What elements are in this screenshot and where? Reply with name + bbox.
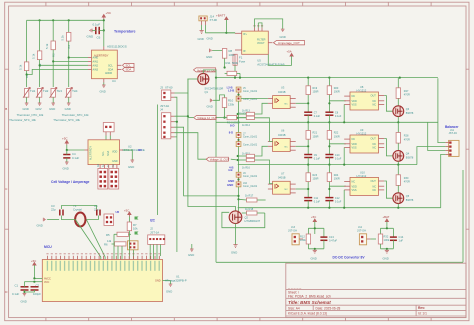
resistor R23 — [306, 165, 319, 198]
capacitor C5 — [94, 204, 100, 216]
wire opto output — [296, 188, 309, 190]
svg-text:+5C: +5C — [311, 215, 316, 219]
connector J7 — [128, 241, 139, 250]
svg-text:GND: GND — [311, 257, 317, 261]
svg-text:GND: GND — [280, 35, 286, 39]
capacitor C13 — [320, 235, 337, 249]
IC U4 ADS1115 temperature ADC — [88, 44, 127, 83]
svg-text:0.1uF: 0.1uF — [72, 156, 79, 160]
power +5A — [287, 50, 294, 66]
wires R5 R6 J7 to MCU — [113, 234, 115, 259]
svg-text:JST-GH: JST-GH — [357, 230, 366, 233]
svg-text:C14: C14 — [399, 235, 404, 239]
svg-text:8-D: 8-D — [230, 123, 235, 127]
wire OUT to gate — [384, 139, 393, 156]
svg-text:ADDR: ADDR — [105, 72, 112, 75]
svg-text:SDA: SDA — [108, 68, 113, 71]
svg-text:Id: 1/1: Id: 1/1 — [418, 312, 427, 316]
connector block J5 bottom left — [98, 169, 108, 190]
svg-text:Conn_01x01: Conn_01x01 — [243, 175, 258, 178]
svg-text:+BAT: +BAT — [383, 215, 390, 219]
svg-text:Conn_01x01: Conn_01x01 — [243, 90, 258, 93]
svg-text:R20: R20 — [334, 87, 339, 90]
wires J2 to MCU — [149, 244, 151, 259]
wire pin4 to rail3 — [441, 154, 446, 207]
capacitor C9 — [304, 154, 320, 166]
wire crystal to mcu xtal pins — [61, 216, 75, 220]
svg-text:GND: GND — [21, 300, 27, 304]
ground under J14 — [198, 25, 204, 41]
crystal Y1 — [73, 204, 86, 227]
svg-text:4-B: 4-B — [228, 168, 233, 172]
svg-text:Thermistor_NTC_10k: Thermistor_NTC_10k — [62, 113, 89, 117]
wire crystal top bus — [61, 206, 96, 209]
svg-text:0.1uF: 0.1uF — [314, 115, 321, 118]
svg-text:Voltage 12_OUT: Voltage 12_OUT — [197, 116, 217, 120]
svg-text:XT-60: XT-60 — [165, 86, 173, 90]
transistor Q5 — [393, 185, 414, 208]
Q2 source to ground — [235, 224, 237, 245]
svg-text:R23: R23 — [313, 174, 318, 177]
transistor Q3 — [393, 98, 414, 123]
connector J7 — [229, 130, 258, 140]
ground right dcdc — [383, 250, 390, 260]
svg-text:+5C: +5C — [31, 259, 36, 263]
svg-text:+5A: +5A — [287, 50, 292, 54]
svg-text:R32: R32 — [384, 235, 389, 239]
svg-text:+5C: +5C — [62, 137, 68, 141]
connector J13 — [288, 226, 303, 245]
wire ACS top filter loop — [255, 19, 283, 29]
connector J14 XT-90 — [199, 15, 218, 26]
capacitor C11 — [304, 197, 320, 209]
svg-text:JST-GH: JST-GH — [288, 230, 297, 233]
resistor R21 — [306, 122, 319, 154]
svg-text:JST-04: JST-04 — [449, 131, 458, 135]
svg-text:NC: NC — [352, 181, 356, 184]
svg-text:470R: 470R — [404, 138, 410, 141]
ground under ADS1115 — [100, 83, 106, 94]
svg-text:ADS1115IDGS: ADS1115IDGS — [107, 44, 127, 48]
resistor R30 — [396, 165, 410, 186]
IC U2 ADS1115 cell voltage ADC — [85, 140, 145, 169]
right vertical return — [462, 170, 464, 262]
svg-text:VDD: VDD — [112, 151, 117, 154]
svg-text:14k: 14k — [107, 239, 112, 243]
svg-text:+5C: +5C — [124, 208, 129, 212]
svg-text:Amperage_OUT: Amperage_OUT — [278, 41, 300, 45]
svg-text:Thermistor_NTC_10k: Thermistor_NTC_10k — [9, 118, 36, 122]
svg-text:KiCad E.D.A. kicad (8.0.13): KiCad E.D.A. kicad (8.0.13) — [288, 312, 327, 316]
resistor R22 — [327, 122, 340, 154]
wires right dcdc top — [381, 228, 394, 237]
svg-text:100k: 100k — [384, 238, 390, 242]
grounds under thermistors — [23, 97, 71, 111]
capacitor C14 — [390, 235, 404, 249]
wire +5C drop — [103, 19, 105, 47]
svg-text:NC: NC — [373, 143, 377, 146]
resistor R2 — [32, 51, 43, 67]
svg-text:VDD: VDD — [352, 185, 357, 188]
svg-text:I2C: I2C — [138, 148, 142, 152]
svg-text:GND: GND — [231, 251, 237, 255]
svg-text:VSS: VSS — [352, 147, 357, 150]
svg-text:AIN3: AIN3 — [93, 68, 99, 71]
resistor R4 — [61, 32, 72, 48]
svg-text:GND: GND — [227, 183, 233, 187]
ground right of loop — [280, 29, 286, 39]
svg-text:0.1uF: 0.1uF — [314, 201, 321, 204]
svg-text:130k: 130k — [228, 102, 235, 106]
resistor R8 — [222, 49, 235, 59]
resistor R9 — [216, 112, 249, 120]
transistor Q4 — [393, 143, 414, 166]
svg-text:R22: R22 — [334, 132, 339, 135]
svg-text:GND: GND — [23, 107, 29, 111]
svg-text:File: PCBA_2_BMS.kicad_sch: File: PCBA_2_BMS.kicad_sch — [288, 294, 331, 298]
svg-text:R24: R24 — [334, 174, 339, 177]
svg-text:100R: 100R — [313, 178, 319, 181]
thermistor TH3 — [50, 88, 63, 98]
wires connector to IC — [105, 136, 107, 140]
wire gnd to R10 — [213, 95, 224, 100]
resistor R24 — [327, 165, 340, 198]
resistor R6 horizontal — [104, 239, 126, 247]
svg-text:U7: U7 — [281, 171, 285, 175]
global label Voltage 13 OUT — [194, 68, 218, 73]
svg-text:NC: NC — [285, 189, 289, 191]
svg-text:_ _ _ _ _: _ _ _ _ _ — [287, 285, 301, 289]
wire bottoms to gnd — [308, 249, 324, 251]
power +5C right — [124, 208, 131, 216]
MCU U1 body — [42, 260, 162, 302]
wire VSS to rail — [343, 190, 345, 208]
wire gnd to crystal — [47, 219, 59, 221]
svg-text:AIN0: AIN0 — [93, 57, 99, 60]
svg-text:U8: U8 — [360, 85, 364, 89]
svg-text:0.47uF: 0.47uF — [329, 238, 337, 242]
wire VSS to rail — [343, 148, 345, 165]
svg-text:C1: C1 — [15, 284, 19, 288]
wire to driver VDD — [329, 100, 345, 102]
svg-text:1k R14: 1k R14 — [242, 124, 251, 127]
svg-text:100R: 100R — [313, 91, 319, 94]
svg-text:1k R18: 1k R18 — [245, 207, 254, 211]
wire opto output — [296, 145, 309, 147]
svg-text:470R: 470R — [404, 94, 410, 97]
MCU right gnd pin — [155, 280, 172, 294]
connector J12 — [357, 226, 370, 245]
thermistor TH4 — [65, 88, 78, 98]
svg-text:ALERT/RDY: ALERT/RDY — [90, 146, 93, 160]
svg-text:TH3: TH3 — [57, 89, 63, 93]
svg-text:VIOUT: VIOUT — [257, 42, 265, 45]
connector J3 XT-60 — [160, 86, 175, 101]
svg-text:22p: 22p — [51, 208, 56, 212]
opto-isolator U6 — [268, 129, 296, 152]
wire IC right pin to ground — [123, 150, 132, 160]
svg-text:Q2: Q2 — [245, 216, 249, 220]
connector J10 — [227, 182, 258, 188]
svg-text:Q1: Q1 — [205, 90, 209, 94]
svg-text:+BATT: +BATT — [216, 13, 225, 17]
svg-text:ATmega328PB-P: ATmega328PB-P — [165, 279, 187, 283]
resistor R19 — [306, 78, 319, 113]
svg-text:J11: J11 — [450, 128, 455, 132]
svg-text:GND: GND — [112, 160, 118, 163]
connector J2 (2-pin) above U2 — [103, 123, 114, 136]
wire input rail — [238, 101, 240, 132]
capacitor C3 — [51, 204, 63, 216]
capacitor C2 — [31, 282, 42, 296]
svg-text:VDD: VDD — [352, 100, 357, 103]
svg-text:0.1uF: 0.1uF — [12, 292, 19, 296]
svg-text:Rev:: Rev: — [418, 306, 425, 310]
svg-text:GND: GND — [207, 105, 213, 109]
wire top bus — [27, 19, 104, 21]
ground left dcdc — [311, 250, 317, 260]
svg-text:GND: GND — [65, 107, 71, 111]
svg-text:AIN2: AIN2 — [93, 64, 99, 67]
svg-text:R28: R28 — [404, 135, 409, 138]
svg-text:SDA: SDA — [107, 151, 110, 156]
thermistor TH1 — [23, 88, 36, 98]
svg-text:U9: U9 — [360, 128, 364, 132]
top distribution rail — [216, 77, 438, 79]
ground for R10 — [207, 99, 213, 109]
svg-text:GND: GND — [37, 224, 43, 228]
svg-text:Date: 2025-06-28: Date: 2025-06-28 — [316, 306, 341, 310]
svg-text:DC-DC Converter 8V: DC-DC Converter 8V — [333, 255, 366, 259]
svg-text:NC: NC — [352, 95, 356, 98]
IC U9 HY1212 — [344, 128, 384, 153]
svg-text:130k: 130k — [229, 53, 236, 57]
svg-text:Q4: Q4 — [406, 153, 410, 156]
svg-text:Temperature: Temperature — [114, 30, 136, 34]
wire J12 to R32 — [370, 238, 376, 240]
svg-text:TH2: TH2 — [43, 89, 49, 93]
svg-text:R12: R12 — [300, 235, 305, 239]
connector J8 — [236, 139, 258, 147]
wire rail channel 1 bottom — [216, 121, 438, 123]
resistor R18 — [242, 207, 265, 215]
svg-text:0.1uF: 0.1uF — [335, 157, 342, 160]
ground under Q2 — [231, 245, 238, 255]
svg-text:XT-90: XT-90 — [210, 18, 218, 22]
resistor R17 — [239, 194, 266, 203]
svg-text:NC: NC — [285, 103, 289, 105]
svg-text:Voltage 13_OUT: Voltage 13_OUT — [197, 68, 217, 72]
resistor R15 — [237, 146, 268, 157]
svg-text:JST-1A: JST-1A — [150, 231, 159, 235]
svg-text:100R: 100R — [334, 135, 340, 138]
svg-text:GND: GND — [207, 37, 213, 41]
svg-text:AIN1: AIN1 — [93, 61, 99, 64]
svg-text:GND: GND — [100, 90, 106, 94]
svg-text:1k R17: 1k R17 — [245, 194, 254, 198]
ground left of crystal — [37, 218, 48, 228]
resistor R5 horizontal — [106, 232, 131, 237]
svg-text:Crystal: Crystal — [73, 208, 82, 212]
wire column 4 — [68, 20, 70, 32]
wire IP+ from J14 — [226, 32, 235, 34]
svg-text:VDD: VDD — [352, 143, 357, 146]
wire pin2 to rail2 — [417, 147, 446, 165]
svg-text:0401B: 0401B — [278, 176, 286, 180]
capacitor C10 — [325, 154, 341, 166]
resistor R20 — [327, 78, 340, 113]
svg-text:GND: GND — [63, 167, 69, 171]
wire +5C to IC — [67, 145, 85, 150]
global label SCL — [123, 63, 135, 67]
fuse F1 — [233, 50, 246, 65]
svg-text:Conn_01x01: Conn_01x01 — [243, 185, 258, 188]
svg-text:Size: A4: Size: A4 — [288, 306, 300, 310]
svg-text:MCU: MCU — [44, 245, 52, 249]
power +5C — [311, 215, 316, 229]
wire gnd to R8 — [212, 48, 224, 50]
wire column 3 — [52, 20, 54, 41]
power +5C — [102, 11, 112, 19]
thermistor TH2 — [36, 88, 49, 98]
svg-text:0.1uF: 0.1uF — [93, 23, 101, 27]
svg-text:0.1uF: 0.1uF — [335, 115, 342, 118]
svg-text:VSS: VSS — [352, 189, 357, 192]
wire J6 to opto U3 pin1 — [241, 97, 268, 99]
svg-text:Cell Voltage / Amperage: Cell Voltage / Amperage — [51, 180, 90, 184]
svg-text:VSS: VSS — [352, 104, 357, 107]
wire to driver VDD — [329, 143, 345, 145]
bottom long rail — [216, 261, 463, 263]
capacitor C8 — [325, 112, 341, 124]
wires around Q1 — [203, 70, 216, 74]
wire opto output — [296, 102, 309, 104]
wires below resistors — [26, 71, 28, 87]
connector J6 — [236, 94, 258, 102]
resistor R11 — [225, 61, 240, 76]
svg-text:Q5: Q5 — [406, 195, 410, 198]
wire Q2 top feed — [237, 195, 239, 197]
svg-text:R5: R5 — [106, 233, 110, 237]
svg-text:HTGB09GNT: HTGB09GNT — [245, 219, 261, 223]
left pin wires — [34, 277, 42, 279]
svg-text:0.1uF: 0.1uF — [314, 157, 321, 160]
svg-text:IP+: IP+ — [243, 33, 247, 36]
svg-text:8-D: 8-D — [229, 130, 233, 134]
svg-text:500k: 500k — [232, 61, 239, 65]
wire column 2 — [39, 20, 41, 51]
svg-text:GND: GND — [49, 107, 55, 111]
global label Amperage OUT — [274, 41, 305, 46]
IC U10 HY1212 — [344, 170, 384, 195]
svg-text:1uF: 1uF — [399, 238, 404, 242]
connector block J6 bottom right — [109, 169, 119, 190]
svg-text:SVC04750610R: SVC04750610R — [205, 87, 224, 91]
svg-text:U6: U6 — [281, 129, 285, 133]
ground right of U2 — [128, 160, 134, 169]
svg-text:0401B: 0401B — [278, 133, 286, 137]
svg-text:NC: NC — [373, 104, 377, 107]
wire rail channel 2 bottom — [238, 164, 417, 166]
wire OUT to gate — [384, 96, 393, 112]
svg-text:U4: U4 — [112, 79, 116, 83]
svg-text:Thermistor_NTC_10k: Thermistor_NTC_10k — [53, 118, 80, 122]
svg-text:J4: J4 — [160, 108, 163, 112]
ground under caps — [21, 294, 27, 304]
svg-text:R30: R30 — [404, 177, 409, 180]
svg-text:10k: 10k — [133, 227, 138, 231]
resistor R27 — [396, 78, 410, 99]
MCU top pin stubs and numbers — [46, 253, 160, 271]
svg-text:BS878: BS878 — [406, 112, 414, 115]
svg-text:NC: NC — [373, 185, 377, 188]
wire pin1 to top rail — [438, 78, 446, 142]
svg-text:TH4: TH4 — [72, 89, 78, 93]
node dots top bus — [39, 19, 41, 21]
svg-text:BS878: BS878 — [406, 157, 414, 160]
resistor R28 — [396, 122, 410, 143]
svg-text:Title: BMS Schemat: Title: BMS Schemat — [288, 300, 331, 305]
svg-text:NC: NC — [373, 147, 377, 150]
svg-text:NC: NC — [373, 100, 377, 103]
svg-text:100k: 100k — [300, 238, 306, 242]
ground under C4 — [63, 162, 69, 171]
svg-text:OUT: OUT — [371, 180, 377, 183]
power +BAT — [383, 215, 390, 229]
svg-text:B: B — [5, 107, 7, 111]
gate loop wires — [222, 212, 265, 227]
resistor R3 — [45, 41, 56, 57]
svg-text:C6: C6 — [97, 36, 101, 40]
capacitor C6 — [92, 23, 104, 40]
svg-text:GND: GND — [206, 55, 212, 59]
svg-text:C13: C13 — [329, 235, 334, 239]
ground top (R8 loop) — [206, 49, 212, 59]
capacitor C7 — [304, 112, 320, 124]
connector J9 — [228, 168, 258, 178]
svg-text:U3: U3 — [281, 86, 285, 90]
svg-text:GNV: GNV — [36, 107, 42, 111]
svg-text:1k R16: 1k R16 — [242, 166, 251, 169]
wire J14 to ACS IP+ — [206, 25, 235, 33]
svg-text:R6: R6 — [104, 243, 108, 247]
wire taps to ADC — [69, 57, 88, 59]
svg-text:0401B: 0401B — [278, 90, 286, 94]
connector J5 — [227, 86, 258, 95]
wire R10 to voltage12 net — [224, 108, 226, 118]
capacitor C12 — [325, 197, 341, 209]
svg-text:5.1k: 5.1k — [19, 64, 23, 70]
power +BATT — [216, 13, 228, 33]
svg-text:Q3: Q3 — [406, 108, 410, 111]
IC U8 HY1212 — [344, 85, 384, 110]
resistor R32 — [378, 234, 390, 249]
svg-text:I2C: I2C — [150, 219, 156, 223]
resistor R10 — [222, 98, 234, 108]
transistor Q1 — [198, 73, 224, 94]
resistor R16 — [237, 158, 273, 183]
svg-text:R27: R27 — [404, 90, 409, 93]
svg-text:JST-0A: JST-0A — [160, 104, 169, 108]
wire bottoms to gnd right — [381, 249, 394, 251]
svg-text:Fuse: Fuse — [239, 60, 246, 64]
wire caps bottoms to gnd — [24, 290, 34, 292]
svg-text:NC: NC — [373, 189, 377, 192]
svg-text:L2-B: L2-B — [227, 86, 233, 90]
svg-text:TH1: TH1 — [30, 89, 36, 93]
global label SDA — [123, 68, 135, 72]
svg-text:100R: 100R — [334, 91, 340, 94]
